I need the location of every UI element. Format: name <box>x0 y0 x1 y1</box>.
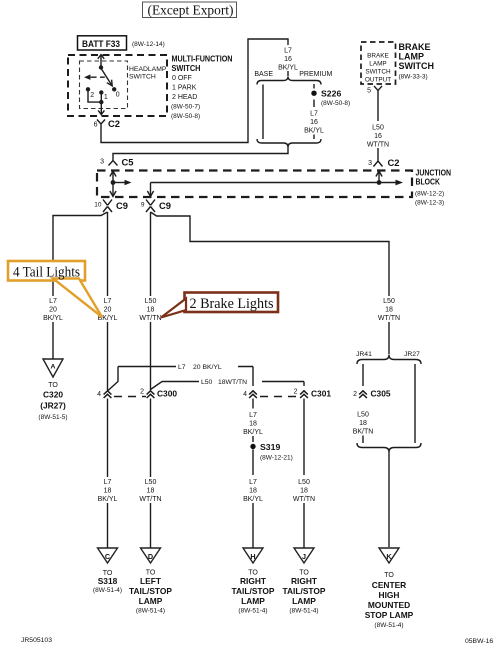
svg-text:18: 18 <box>104 488 112 495</box>
svg-text:L7: L7 <box>249 412 257 419</box>
svg-text:TO: TO <box>384 572 394 579</box>
svg-text:(8W-50-8): (8W-50-8) <box>321 100 350 107</box>
svg-text:SWITCH: SWITCH <box>399 61 435 71</box>
svg-text:L50: L50 <box>357 412 369 419</box>
svg-text:(8W-51-5): (8W-51-5) <box>38 414 67 421</box>
svg-text:TAIL/STOP: TAIL/STOP <box>129 586 172 596</box>
svg-text:LAMP: LAMP <box>399 52 425 62</box>
svg-text:(8W-51-4): (8W-51-4) <box>93 587 122 594</box>
svg-text:TO: TO <box>48 382 58 389</box>
svg-text:L7: L7 <box>104 298 112 305</box>
svg-text:S226: S226 <box>321 89 341 99</box>
svg-text:1 PARK: 1 PARK <box>172 85 197 92</box>
svg-text:(8W-50-8): (8W-50-8) <box>171 113 200 120</box>
svg-text:(8W-12-3): (8W-12-3) <box>415 200 444 207</box>
svg-text:WT/TN: WT/TN <box>378 315 400 322</box>
svg-text:C2: C2 <box>108 118 120 129</box>
svg-text:18: 18 <box>385 307 393 314</box>
svg-text:(8W-12-14): (8W-12-14) <box>132 41 165 48</box>
svg-text:L7: L7 <box>310 111 318 118</box>
svg-text:TAIL/STOP: TAIL/STOP <box>232 586 275 596</box>
svg-text:20 BK/YL: 20 BK/YL <box>193 364 222 371</box>
svg-text:BK/YL: BK/YL <box>43 315 63 322</box>
svg-text:(8W-51-4): (8W-51-4) <box>289 608 318 615</box>
svg-text:6: 6 <box>94 122 98 129</box>
svg-text:K: K <box>386 552 392 561</box>
svg-text:L7: L7 <box>49 298 57 305</box>
svg-text:L50: L50 <box>298 479 310 486</box>
svg-text:J: J <box>302 552 306 561</box>
svg-text:16: 16 <box>310 119 318 126</box>
svg-text:L7: L7 <box>284 48 292 55</box>
svg-text:BLOCK: BLOCK <box>416 178 441 187</box>
svg-text:L7: L7 <box>249 479 257 486</box>
svg-text:CENTER: CENTER <box>372 580 406 590</box>
svg-text:20: 20 <box>104 307 112 314</box>
svg-text:C5: C5 <box>122 157 134 168</box>
svg-text:LEFT: LEFT <box>140 576 162 586</box>
svg-text:WT/TN: WT/TN <box>139 496 161 503</box>
svg-text:0: 0 <box>116 92 120 99</box>
svg-text:TAIL/STOP: TAIL/STOP <box>283 586 326 596</box>
svg-text:HEADLAMP: HEADLAMP <box>129 66 167 73</box>
svg-text:(JR27): (JR27) <box>40 401 66 411</box>
svg-text:BK/TN: BK/TN <box>353 429 374 436</box>
svg-text:L50: L50 <box>145 298 157 305</box>
svg-text:RIGHT: RIGHT <box>240 576 267 586</box>
svg-text:18: 18 <box>300 488 308 495</box>
svg-text:C9: C9 <box>116 200 128 211</box>
svg-text:(8W-51-4): (8W-51-4) <box>136 608 165 615</box>
svg-text:1: 1 <box>104 94 108 101</box>
svg-text:STOP LAMP: STOP LAMP <box>365 610 414 620</box>
svg-text:4: 4 <box>97 391 101 398</box>
svg-text:BATT F33: BATT F33 <box>82 38 120 49</box>
svg-text:L7: L7 <box>178 364 186 371</box>
svg-text:2 HEAD: 2 HEAD <box>172 94 197 101</box>
svg-text:D: D <box>148 552 153 561</box>
svg-text:C301: C301 <box>311 389 331 399</box>
svg-text:L50: L50 <box>145 479 157 486</box>
svg-text:RIGHT: RIGHT <box>291 576 318 586</box>
svg-text:MOUNTED: MOUNTED <box>368 600 410 610</box>
svg-text:BK/YL: BK/YL <box>278 65 298 72</box>
svg-text:(8W-51-4): (8W-51-4) <box>374 622 403 629</box>
svg-text:BASE: BASE <box>254 71 273 78</box>
svg-text:WT/TN: WT/TN <box>293 496 315 503</box>
svg-text:PREMIUM: PREMIUM <box>299 71 332 78</box>
svg-text:L50: L50 <box>201 379 213 386</box>
svg-text:LAMP: LAMP <box>139 596 163 606</box>
svg-text:2: 2 <box>294 389 298 396</box>
svg-text:LAMP: LAMP <box>241 596 265 606</box>
svg-text:JR27: JR27 <box>404 351 420 358</box>
svg-text:(8W-33-3): (8W-33-3) <box>399 74 428 81</box>
svg-text:18WT/TN: 18WT/TN <box>218 379 247 386</box>
svg-text:S318: S318 <box>98 576 118 586</box>
svg-text:(Except Export): (Except Export) <box>148 3 234 18</box>
svg-text:4 Tail Lights: 4 Tail Lights <box>13 265 80 281</box>
svg-text:2: 2 <box>353 391 357 398</box>
svg-text:A: A <box>51 364 56 371</box>
svg-text:18: 18 <box>249 488 257 495</box>
svg-text:05BW-16: 05BW-16 <box>465 638 493 645</box>
svg-text:JR505103: JR505103 <box>21 637 52 644</box>
svg-text:2 Brake Lights: 2 Brake Lights <box>190 296 274 312</box>
svg-text:L50: L50 <box>372 125 384 132</box>
svg-text:10: 10 <box>94 202 102 209</box>
svg-text:HIGH: HIGH <box>379 590 400 600</box>
svg-text:(8W-12-21): (8W-12-21) <box>260 455 293 462</box>
svg-text:(8W-51-4): (8W-51-4) <box>238 608 267 615</box>
svg-text:C2: C2 <box>388 157 400 168</box>
svg-text:MULTI-FUNCTION: MULTI-FUNCTION <box>172 54 233 64</box>
svg-text:18: 18 <box>359 420 367 427</box>
svg-text:BK/YL: BK/YL <box>243 496 263 503</box>
svg-text:L7: L7 <box>104 479 112 486</box>
svg-text:SWITCH: SWITCH <box>365 69 391 76</box>
svg-text:BK/YL: BK/YL <box>98 496 118 503</box>
svg-text:SWITCH: SWITCH <box>129 74 156 81</box>
svg-text:C320: C320 <box>43 390 63 400</box>
svg-text:WT/TN: WT/TN <box>367 142 389 149</box>
svg-text:3: 3 <box>100 159 104 166</box>
svg-text:JR41: JR41 <box>356 351 372 358</box>
svg-text:(8W-12-2): (8W-12-2) <box>415 191 444 198</box>
svg-text:OUTPUT: OUTPUT <box>365 77 391 84</box>
svg-text:SWITCH: SWITCH <box>172 63 201 73</box>
svg-text:WT/TN: WT/TN <box>139 315 161 322</box>
svg-text:20: 20 <box>49 307 57 314</box>
svg-text:2: 2 <box>90 92 94 99</box>
svg-text:18: 18 <box>249 421 257 428</box>
svg-text:9: 9 <box>141 202 145 209</box>
svg-text:JUNCTION: JUNCTION <box>416 169 452 178</box>
svg-text:LAMP: LAMP <box>292 596 316 606</box>
svg-text:BRAKE: BRAKE <box>399 42 431 52</box>
svg-text:C9: C9 <box>159 200 171 211</box>
svg-text:L50: L50 <box>383 298 395 305</box>
svg-text:BK/YL: BK/YL <box>243 429 263 436</box>
svg-text:4: 4 <box>243 391 247 398</box>
svg-text:H: H <box>250 552 255 561</box>
svg-text:16: 16 <box>374 133 382 140</box>
svg-text:0 OFF: 0 OFF <box>172 75 192 82</box>
svg-text:2: 2 <box>140 389 144 396</box>
svg-text:LAMP: LAMP <box>369 61 386 68</box>
svg-text:18: 18 <box>147 488 155 495</box>
svg-text:S319: S319 <box>260 442 280 452</box>
svg-text:C300: C300 <box>157 389 177 399</box>
svg-text:3: 3 <box>368 160 372 167</box>
svg-text:5: 5 <box>367 88 371 95</box>
svg-text:BRAKE: BRAKE <box>367 53 389 60</box>
svg-text:C: C <box>105 552 110 561</box>
svg-text:BK/YL: BK/YL <box>304 128 324 135</box>
svg-text:16: 16 <box>284 56 292 63</box>
svg-text:(8W-50-7): (8W-50-7) <box>171 104 200 111</box>
svg-text:18: 18 <box>147 307 155 314</box>
svg-text:C305: C305 <box>371 389 391 399</box>
